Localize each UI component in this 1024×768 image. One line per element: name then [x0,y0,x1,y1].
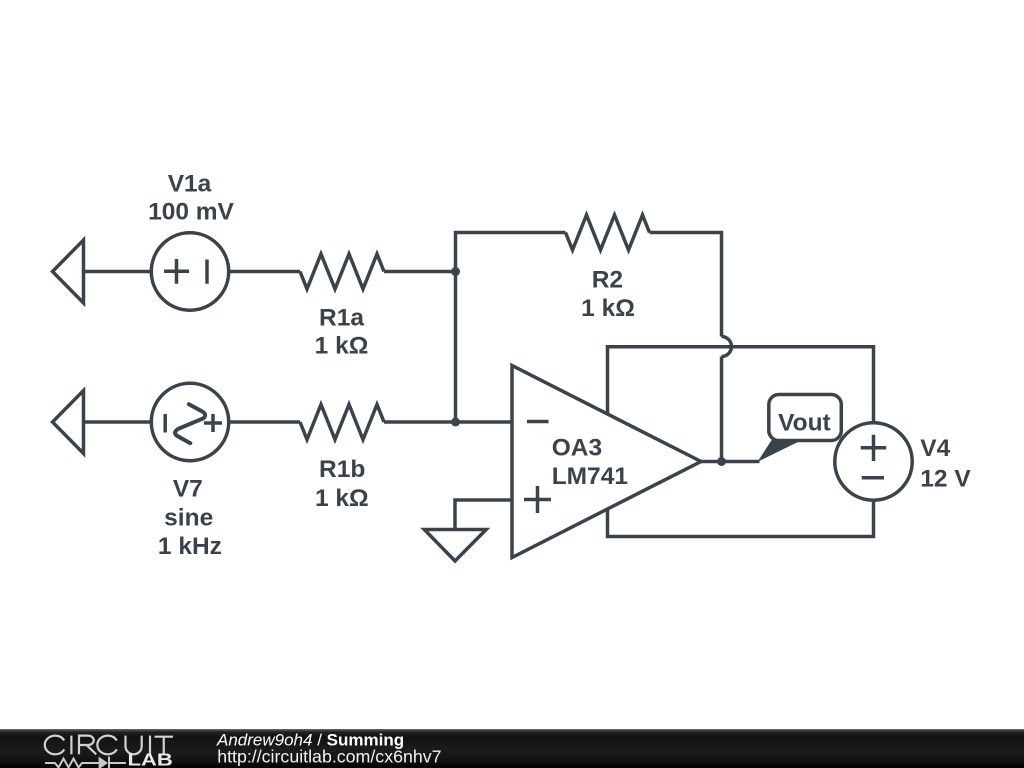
wire op-amp non-inverting input to ground [455,500,512,529]
svg-text:OA3: OA3 [552,434,602,461]
wire arrow to V7 [84,420,152,424]
svg-text:R2: R2 [592,267,623,294]
resistor R2 [566,215,650,250]
wire V1a to R1a [229,270,300,274]
wire R1a to node [384,270,456,274]
wire hop over supply rail [722,337,732,357]
input terminal arrow (V7 row) [53,391,84,454]
node junction dot (inverting sum node, upper) [451,267,460,276]
op-amp minus input mark [527,420,549,424]
CircuitLab logo wordmark CIRCUIT (drawn letters) [45,736,173,755]
svg-text:V7: V7 [173,476,203,503]
wire V7 to R1b [229,420,300,424]
svg-text:LAB: LAB [128,750,173,768]
svg-text:sine: sine [164,504,213,531]
svg-text:1 kΩ: 1 kΩ [581,295,635,322]
svg-text:12 V: 12 V [920,466,971,493]
wire op-amp output [701,460,760,464]
svg-text:100 mV: 100 mV [148,199,234,226]
svg-text:R1b: R1b [319,456,365,483]
V7 minus bar [163,414,167,433]
ground symbol [424,530,486,562]
footer brand bar [0,729,1024,768]
svg-text:V1a: V1a [168,171,212,198]
V7 sine squiggle [175,404,205,443]
op-amp OA3 triangle [512,366,701,558]
voltage source V1a circle [151,233,228,310]
wire arrow to V1a [84,270,152,274]
svg-text:Vout: Vout [778,409,831,436]
svg-text:1 kΩ: 1 kΩ [315,485,369,512]
svg-text:R1a: R1a [319,305,364,332]
wire op-amp positive supply rail to V4 top [608,347,874,423]
output node junction dot [717,457,726,466]
resistor R1b [300,405,384,440]
svg-text:V4: V4 [920,435,950,462]
voltage source V4 circle [835,423,912,500]
input terminal arrow (V1a row) [53,240,84,303]
node junction dot (inverting sum node, lower) [451,418,460,427]
V7 plus sign [204,414,222,432]
resistor R1a [300,254,384,289]
wire feedback to output node [720,357,724,462]
wire node to op-amp inverting input [456,420,513,424]
wire R1b to node [384,420,456,424]
svg-text:1 kΩ: 1 kΩ [315,333,369,360]
svg-text:http://circuitlab.com/cx6nhv7: http://circuitlab.com/cx6nhv7 [217,747,441,767]
V4 plus sign [861,435,887,461]
svg-text:LM741: LM741 [552,463,628,490]
wire vertical sum node [456,233,566,423]
V1a minus bar [205,260,209,284]
wire R2 to feedback drop [650,233,722,337]
wire op-amp negative supply rail to V4 bottom [608,500,874,536]
op-amp plus input mark [524,486,551,513]
V1a plus sign [164,259,189,284]
voltage source V7 circle [151,383,228,460]
svg-text:1 kHz: 1 kHz [158,533,222,560]
Vout flag box [769,395,842,441]
V4 minus sign [862,476,884,480]
Vout flag pointer [758,440,804,462]
CircuitLab logo resistor-diode squiggle [45,757,126,768]
